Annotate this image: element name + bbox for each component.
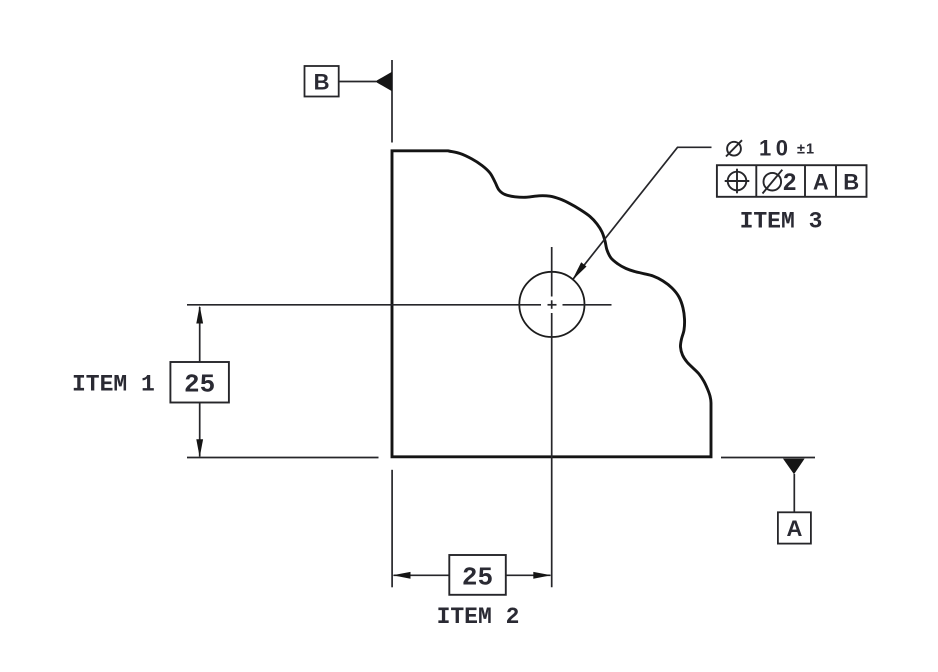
svg-text:10: 10 — [759, 136, 792, 161]
ITEM 2 right arrowhead — [533, 572, 551, 579]
ITEM 1 down arrowhead — [196, 439, 203, 457]
datum A box — [778, 512, 811, 543]
position symbol — [725, 169, 750, 194]
datum A triangle — [783, 459, 805, 475]
ITEM 1 dimension line — [199, 307, 201, 457]
svg-text:25: 25 — [184, 369, 215, 399]
datum B leader — [339, 81, 376, 83]
svg-text:ITEM 1: ITEM 1 — [72, 372, 155, 398]
tolerance diameter symbol — [763, 170, 783, 194]
svg-text:2: 2 — [783, 169, 796, 196]
hole circle — [519, 272, 584, 337]
hole size note diameter symbol — [726, 140, 742, 156]
datum B extension line — [391, 60, 393, 143]
ITEM 2 dimension line — [394, 574, 551, 576]
ITEM 2 left extension line — [391, 470, 393, 588]
svg-text:±1: ±1 — [797, 141, 815, 157]
ITEM 2 left arrowhead — [393, 572, 411, 579]
svg-text:ITEM 2: ITEM 2 — [437, 604, 520, 630]
datum B box — [305, 66, 339, 97]
svg-text:B: B — [843, 170, 859, 195]
horizontal center line — [187, 304, 612, 306]
datum A extension line — [721, 457, 815, 459]
vertical center line — [551, 247, 553, 587]
svg-text:B: B — [314, 69, 330, 94]
datum B triangle — [375, 72, 392, 91]
hole leader line — [573, 147, 712, 279]
part outline — [392, 151, 711, 457]
feature control frame outer box — [717, 165, 867, 197]
ITEM 1 bottom extension line — [187, 457, 379, 459]
svg-text:ITEM 3: ITEM 3 — [740, 208, 823, 234]
ITEM 1 up arrowhead — [196, 306, 203, 324]
datum A leader — [793, 474, 795, 512]
svg-text:25: 25 — [462, 562, 493, 592]
svg-text:A: A — [786, 516, 802, 541]
ITEM 1 value box — [170, 362, 229, 403]
hole leader arrowhead — [572, 262, 587, 280]
svg-text:A: A — [813, 170, 829, 195]
ITEM 2 value box — [449, 555, 506, 595]
feature control frame dividers — [756, 165, 836, 197]
